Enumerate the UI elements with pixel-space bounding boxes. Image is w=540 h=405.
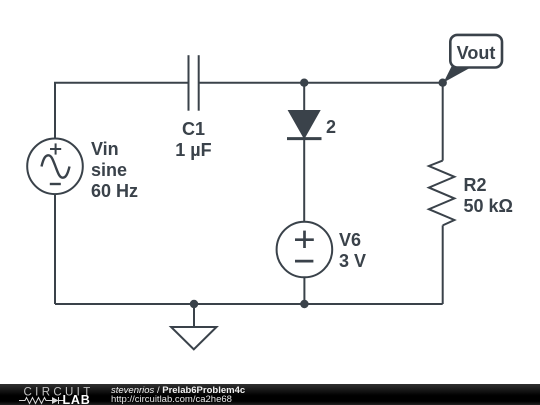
svg-text:LAB: LAB [63, 393, 91, 405]
